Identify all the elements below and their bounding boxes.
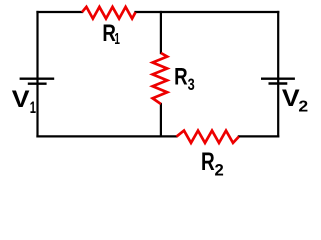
svg-text:1: 1 — [114, 30, 120, 48]
svg-text:V: V — [282, 85, 300, 112]
svg-text:R: R — [201, 147, 215, 175]
svg-text:2: 2 — [215, 160, 224, 179]
svg-text:1: 1 — [30, 99, 36, 118]
svg-text:R: R — [174, 63, 188, 90]
svg-text:V: V — [12, 86, 30, 113]
svg-text:2: 2 — [298, 97, 308, 115]
svg-text:3: 3 — [188, 75, 195, 94]
